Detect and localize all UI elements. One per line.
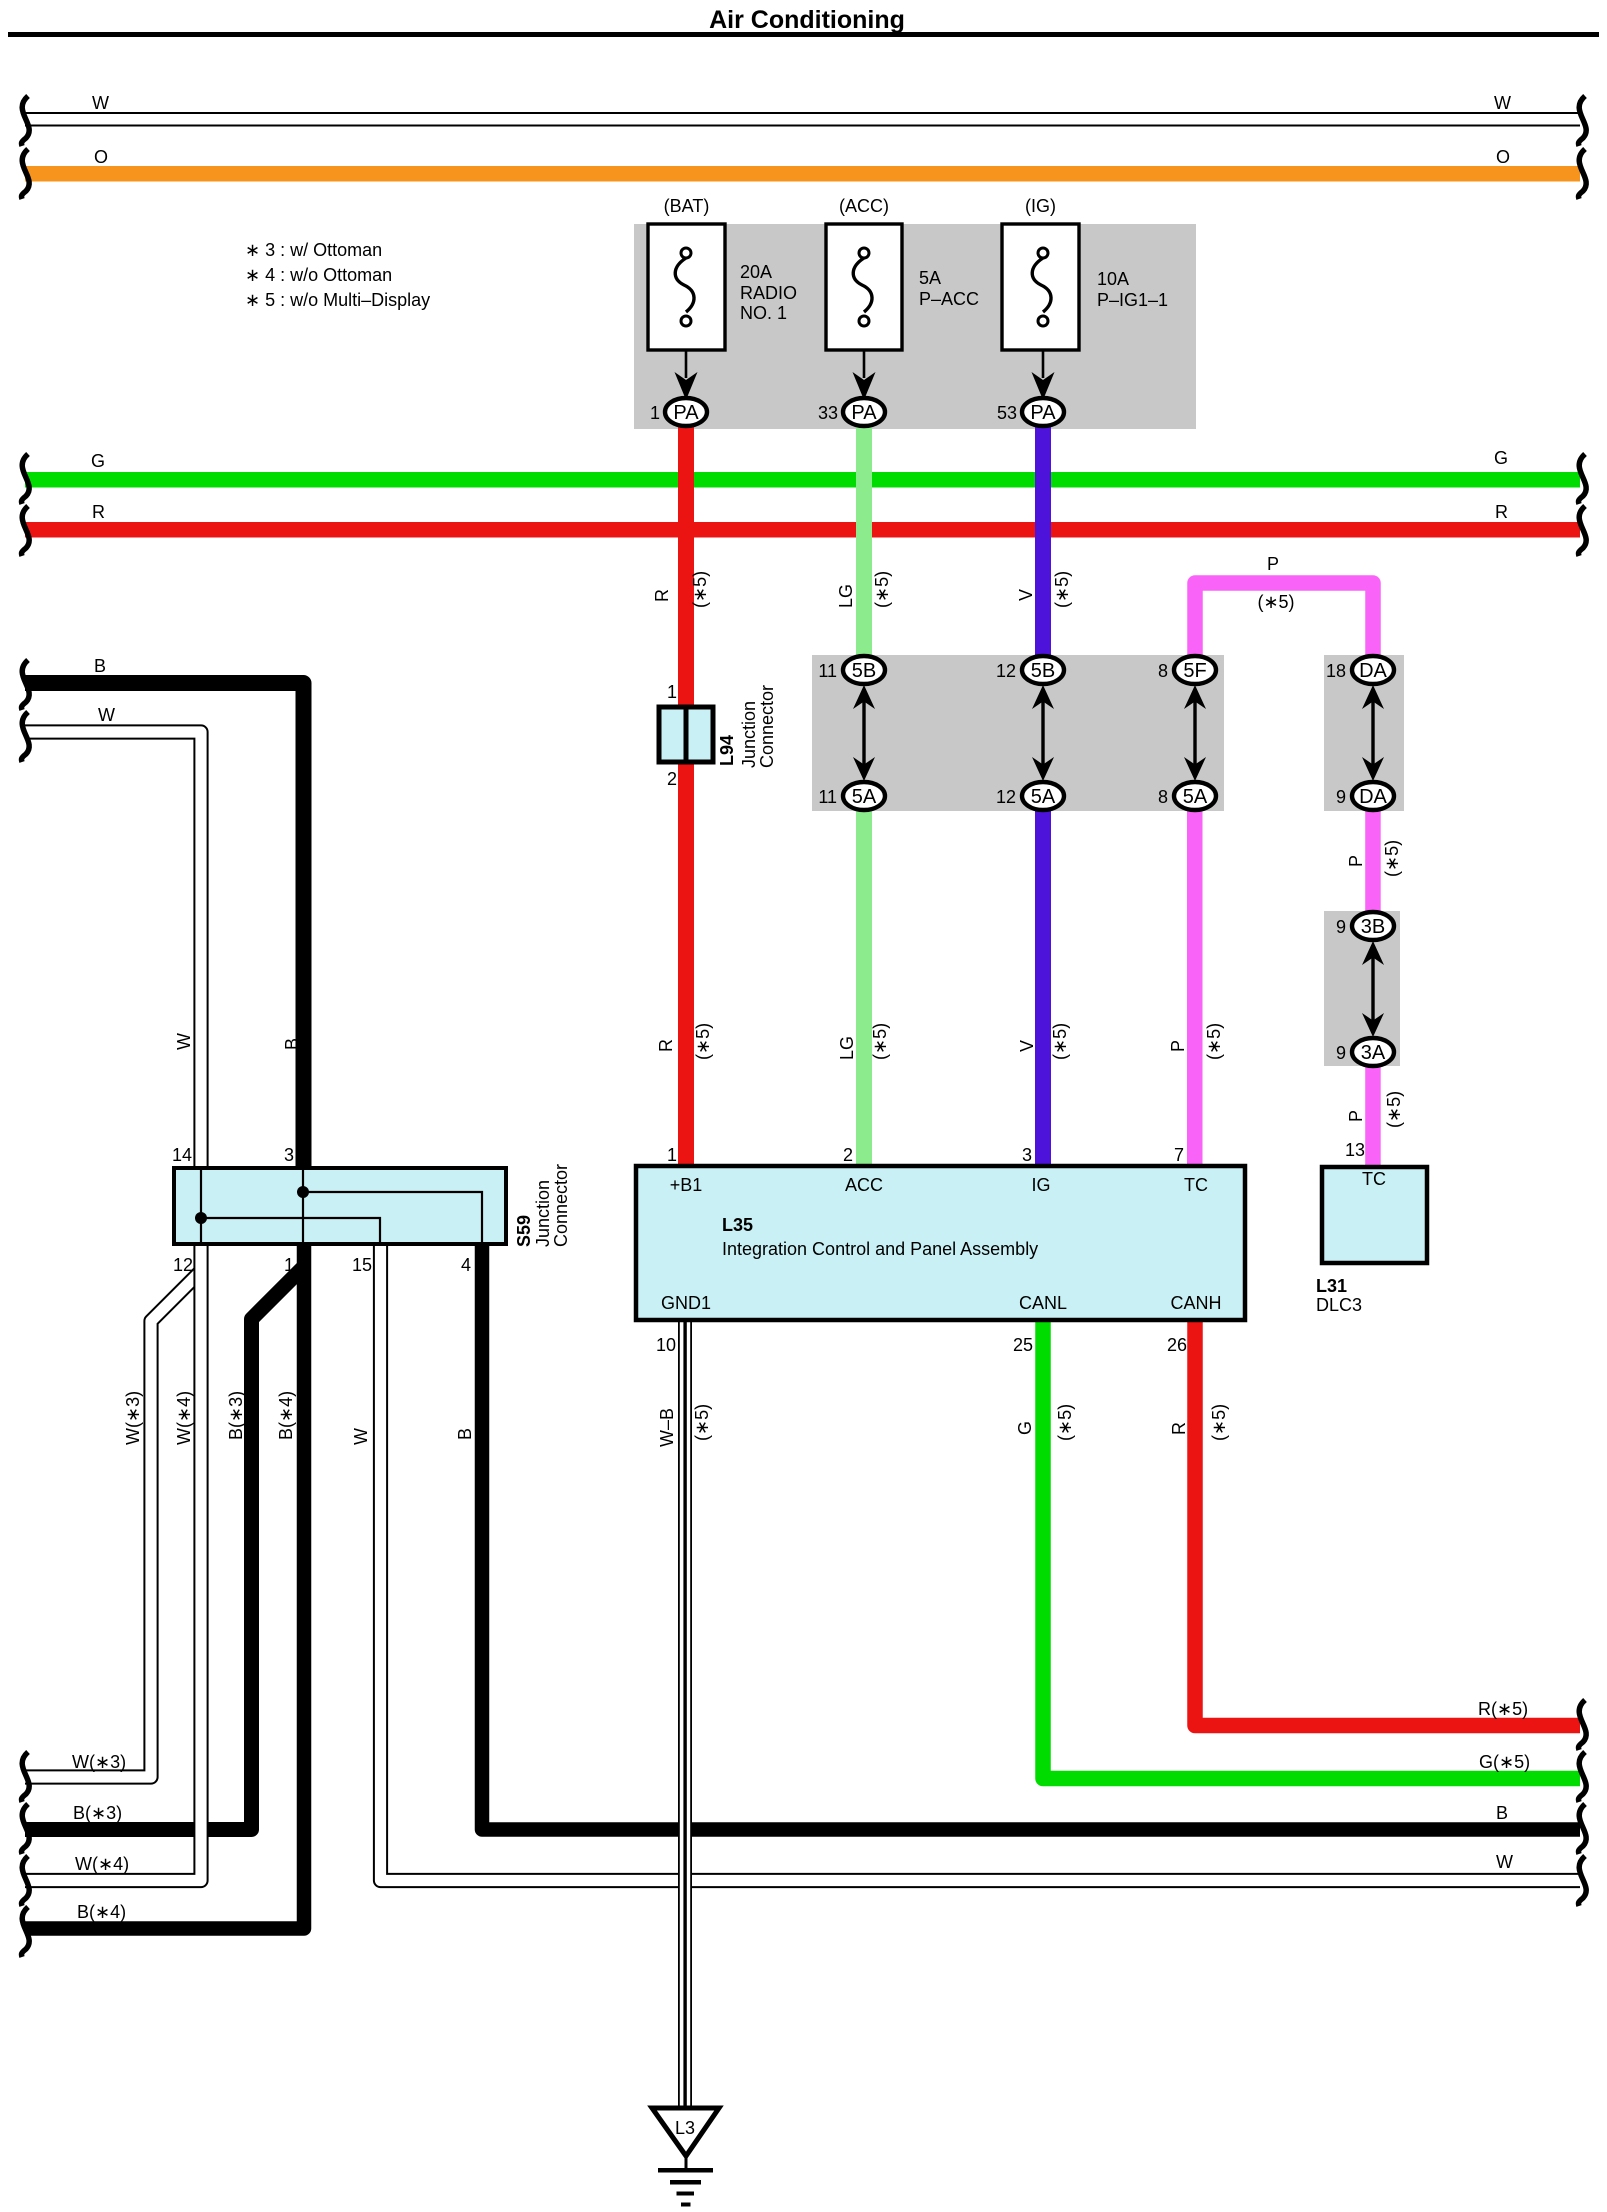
svg-text:B: B xyxy=(455,1428,475,1440)
connector L31 DLC3 xyxy=(1322,1167,1427,1263)
svg-text:5F: 5F xyxy=(1183,660,1206,682)
svg-text:9: 9 xyxy=(1336,917,1346,937)
svg-text:Junction: Junction xyxy=(739,701,759,768)
wire B from S59 pin 4 down, bends right to right edge xyxy=(482,1244,1580,1830)
svg-text:3: 3 xyxy=(284,1145,294,1165)
wire W left, bends down to S59 pin 14 xyxy=(25,732,201,1168)
svg-text:Junction: Junction xyxy=(533,1180,553,1247)
svg-text:(∗5): (∗5) xyxy=(690,571,710,608)
svg-text:12: 12 xyxy=(996,787,1016,807)
svg-text:L3: L3 xyxy=(675,2118,695,2138)
wire W-B from L35 pin 10 down to ground xyxy=(678,1320,692,2108)
svg-text:ACC: ACC xyxy=(845,1175,883,1195)
connector 3B/3A column xyxy=(1371,955,1374,1023)
svg-text:5B: 5B xyxy=(1031,660,1055,682)
svg-text:R: R xyxy=(652,589,672,602)
svg-text:10: 10 xyxy=(656,1335,676,1355)
svg-text:B: B xyxy=(1496,1803,1508,1823)
svg-text:3A: 3A xyxy=(1361,1042,1386,1064)
wire LG from fuse PA pin 33 xyxy=(856,420,872,672)
svg-text:5A: 5A xyxy=(1031,786,1056,808)
wire R from fuse PA pin 1 to L35 +B1 xyxy=(678,420,694,1166)
fuse IG xyxy=(1002,224,1079,350)
svg-text:(ACC): (ACC) xyxy=(839,196,889,216)
svg-text:53: 53 xyxy=(997,403,1017,423)
connector 5F/5A column x=1195 xyxy=(1193,699,1196,767)
svg-text:(∗5): (∗5) xyxy=(1050,1023,1070,1060)
svg-text:3B: 3B xyxy=(1361,916,1385,938)
svg-text:20A: 20A xyxy=(740,262,772,282)
svg-text:R: R xyxy=(656,1039,676,1052)
svg-text:W: W xyxy=(351,1428,371,1445)
svg-text:W: W xyxy=(98,705,115,725)
svg-text:9: 9 xyxy=(1336,787,1346,807)
svg-text:P: P xyxy=(1346,1110,1366,1122)
svg-text:(∗5): (∗5) xyxy=(693,1023,713,1060)
svg-text:L35: L35 xyxy=(722,1215,753,1235)
connector panel 3B/3A background xyxy=(1324,911,1400,1066)
svg-text:5A: 5A xyxy=(1183,786,1208,808)
svg-text:P: P xyxy=(1346,855,1366,867)
svg-text:P–IG1–1: P–IG1–1 xyxy=(1097,290,1168,310)
svg-text:+B1: +B1 xyxy=(670,1175,703,1195)
svg-text:(∗5): (∗5) xyxy=(870,1023,890,1060)
svg-text:Integration Control and Panel: Integration Control and Panel Assembly xyxy=(722,1239,1038,1259)
wire W from S59 pin 15 down, bends right to right edge xyxy=(381,1244,1581,1881)
svg-text:PA: PA xyxy=(673,402,699,424)
svg-text:W(∗3): W(∗3) xyxy=(72,1752,126,1772)
svg-text:5A: 5A xyxy=(919,268,941,288)
wire P from L35 TC pin 7 up and over to DA xyxy=(1195,583,1373,668)
wire B left, bends down to S59 pin 3 xyxy=(25,683,304,1168)
svg-text:W: W xyxy=(92,93,109,113)
svg-text:P: P xyxy=(1168,1040,1188,1052)
svg-text:13: 13 xyxy=(1345,1140,1365,1160)
svg-text:W: W xyxy=(1494,93,1511,113)
svg-text:TC: TC xyxy=(1362,1169,1386,1189)
svg-text:G: G xyxy=(91,451,105,471)
wire B(*3) with diagonal branch from B(*4), to left edge xyxy=(25,1267,304,1830)
svg-text:O: O xyxy=(1496,147,1510,167)
svg-text:∗ 3 : w/ Ottoman: ∗ 3 : w/ Ottoman xyxy=(245,240,382,260)
svg-text:1: 1 xyxy=(284,1255,294,1275)
svg-text:LG: LG xyxy=(837,1036,857,1060)
wire B(*4) from S59 pin 1 down, bends left xyxy=(25,1244,304,1929)
svg-text:GND1: GND1 xyxy=(661,1293,711,1313)
svg-text:1: 1 xyxy=(667,682,677,702)
connector PA pin 33 xyxy=(843,398,885,426)
wire O bus xyxy=(25,166,1580,182)
break symbols right xyxy=(1578,96,1586,146)
svg-text:5B: 5B xyxy=(852,660,876,682)
svg-text:B: B xyxy=(94,656,106,676)
junction connector S59 xyxy=(174,1168,506,1244)
wire G CANL from pin 25, bends right xyxy=(1043,1320,1580,1779)
connector panel 5B/5A background xyxy=(812,655,1224,811)
svg-text:W: W xyxy=(174,1033,194,1050)
svg-text:O: O xyxy=(94,147,108,167)
svg-text:R(∗5): R(∗5) xyxy=(1478,1699,1528,1719)
connector 5B/5A column x=1043 xyxy=(1041,699,1044,767)
svg-text:26: 26 xyxy=(1167,1335,1187,1355)
svg-text:12: 12 xyxy=(996,661,1016,681)
svg-text:2: 2 xyxy=(667,769,677,789)
node S59 B junction xyxy=(297,1186,309,1198)
svg-text:∗ 5 : w/o Multi–Display: ∗ 5 : w/o Multi–Display xyxy=(245,290,430,310)
svg-text:7: 7 xyxy=(1174,1145,1184,1165)
svg-text:(∗5): (∗5) xyxy=(872,571,892,608)
ground L3 xyxy=(652,2108,719,2156)
svg-text:TC: TC xyxy=(1184,1175,1208,1195)
svg-text:18: 18 xyxy=(1326,661,1346,681)
svg-text:1: 1 xyxy=(667,1145,677,1165)
svg-text:G(∗5): G(∗5) xyxy=(1479,1752,1530,1772)
ECU L35 Integration Control and Panel Assembly xyxy=(636,1166,1245,1320)
svg-text:G: G xyxy=(1494,448,1508,468)
connector panel DA background xyxy=(1324,655,1404,811)
svg-text:∗ 4 : w/o Ottoman: ∗ 4 : w/o Ottoman xyxy=(245,265,392,285)
svg-text:11: 11 xyxy=(818,661,837,681)
svg-text:3: 3 xyxy=(1022,1145,1032,1165)
svg-text:1: 1 xyxy=(650,403,660,423)
svg-text:R: R xyxy=(1169,1422,1189,1435)
wire W bus top xyxy=(25,112,1580,126)
svg-text:G: G xyxy=(1015,1421,1035,1435)
svg-text:2: 2 xyxy=(843,1145,853,1165)
svg-text:CANH: CANH xyxy=(1170,1293,1221,1313)
svg-text:9: 9 xyxy=(1336,1043,1346,1063)
svg-text:W(∗3): W(∗3) xyxy=(123,1391,143,1445)
svg-text:(∗5): (∗5) xyxy=(1055,1404,1075,1441)
wire R bus xyxy=(25,522,1580,538)
svg-text:(∗5): (∗5) xyxy=(692,1404,712,1441)
svg-text:10A: 10A xyxy=(1097,269,1129,289)
svg-text:V: V xyxy=(1017,1040,1037,1052)
svg-text:DA: DA xyxy=(1359,660,1387,682)
svg-text:L31: L31 xyxy=(1316,1276,1347,1296)
svg-text:12: 12 xyxy=(173,1255,193,1275)
svg-text:25: 25 xyxy=(1013,1335,1033,1355)
svg-text:LG: LG xyxy=(836,584,856,608)
wire W(*4) from S59 pin 12 down, bends left xyxy=(25,1244,201,1881)
svg-text:RADIO: RADIO xyxy=(740,283,797,303)
fuse ACC xyxy=(826,224,902,350)
wire G bus xyxy=(25,472,1580,488)
wire W(*3) diagonal branch, down, bends left xyxy=(25,1273,199,1777)
svg-text:B: B xyxy=(282,1038,302,1050)
svg-text:Connector: Connector xyxy=(757,685,777,768)
break symbols left xyxy=(21,96,29,146)
svg-text:11: 11 xyxy=(818,787,837,807)
svg-text:33: 33 xyxy=(818,403,838,423)
svg-text:B(∗4): B(∗4) xyxy=(276,1391,296,1440)
svg-text:IG: IG xyxy=(1031,1175,1050,1195)
svg-text:(∗5): (∗5) xyxy=(1209,1404,1229,1441)
svg-text:8: 8 xyxy=(1158,661,1168,681)
svg-text:(∗5): (∗5) xyxy=(1204,1023,1224,1060)
wire P between DA and 3B xyxy=(1365,794,1381,928)
svg-text:W(∗4): W(∗4) xyxy=(75,1854,129,1874)
svg-text:4: 4 xyxy=(461,1255,471,1275)
svg-text:DLC3: DLC3 xyxy=(1316,1295,1362,1315)
svg-text:W: W xyxy=(1496,1852,1513,1872)
svg-text:B(∗3): B(∗3) xyxy=(226,1391,246,1440)
connector PA pin 1 xyxy=(665,398,707,426)
svg-text:W(∗4): W(∗4) xyxy=(174,1391,194,1445)
svg-text:S59: S59 xyxy=(514,1215,534,1247)
svg-text:14: 14 xyxy=(172,1145,192,1165)
svg-text:15: 15 xyxy=(352,1255,372,1275)
svg-text:P: P xyxy=(1267,554,1279,574)
wire R CANH from pin 26, bends right xyxy=(1195,1320,1580,1726)
fuse panel background xyxy=(634,224,1196,429)
svg-text:R: R xyxy=(92,502,105,522)
svg-text:Connector: Connector xyxy=(551,1164,571,1247)
svg-text:DA: DA xyxy=(1359,786,1387,808)
fuse BAT xyxy=(648,224,725,350)
connector 5B/5A column x=864 xyxy=(862,699,865,767)
junction connector L94 xyxy=(659,707,713,762)
svg-text:(BAT): (BAT) xyxy=(664,196,710,216)
node S59 W junction xyxy=(195,1212,207,1224)
svg-text:NO. 1: NO. 1 xyxy=(740,303,787,323)
svg-text:8: 8 xyxy=(1158,787,1168,807)
wire V from fuse PA pin 53 xyxy=(1035,420,1051,672)
svg-text:(∗5): (∗5) xyxy=(1052,571,1072,608)
svg-text:(∗5): (∗5) xyxy=(1384,1091,1404,1128)
svg-text:P–ACC: P–ACC xyxy=(919,289,979,309)
connector DA column xyxy=(1371,699,1374,767)
svg-text:L94: L94 xyxy=(717,735,737,766)
svg-text:V: V xyxy=(1016,589,1036,601)
svg-text:W–B: W–B xyxy=(657,1408,677,1447)
svg-text:Air Conditioning: Air Conditioning xyxy=(709,6,905,34)
svg-text:5A: 5A xyxy=(852,786,877,808)
svg-text:B(∗4): B(∗4) xyxy=(77,1902,126,1922)
svg-text:PA: PA xyxy=(851,402,877,424)
wire P from 3A down to DLC3 TC pin 13 xyxy=(1365,1050,1381,1167)
svg-text:(IG): (IG) xyxy=(1025,196,1056,216)
connector PA pin 53 xyxy=(1022,398,1064,426)
svg-text:CANL: CANL xyxy=(1019,1293,1067,1313)
svg-text:PA: PA xyxy=(1030,402,1056,424)
svg-text:R: R xyxy=(1495,502,1508,522)
svg-text:B(∗3): B(∗3) xyxy=(73,1803,122,1823)
svg-text:(∗5): (∗5) xyxy=(1382,840,1402,877)
svg-text:(∗5): (∗5) xyxy=(1257,592,1294,612)
